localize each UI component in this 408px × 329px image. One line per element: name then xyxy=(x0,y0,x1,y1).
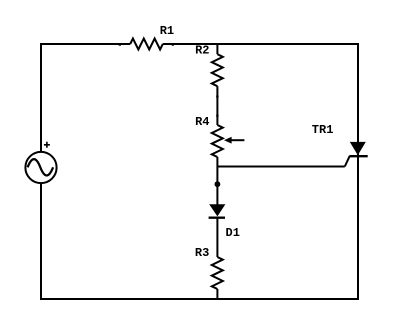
wire from R1 right along top, right side, bottom, up to source - xyxy=(41,44,358,299)
resistor R2 xyxy=(212,54,223,86)
thyristor TR1 triangle xyxy=(350,142,366,155)
svg-text:R1: R1 xyxy=(160,24,174,38)
svg-text:TR1: TR1 xyxy=(312,123,334,137)
node junction dot xyxy=(215,181,221,187)
wire D1 to R3 xyxy=(216,218,218,257)
ac source V1 circle xyxy=(25,152,56,183)
ac source plus polarity mark xyxy=(44,142,50,148)
wire top junction to R2 xyxy=(216,44,218,54)
svg-text:R3: R3 xyxy=(195,246,209,260)
potentiometer R4 xyxy=(212,125,223,157)
svg-text:R2: R2 xyxy=(195,43,209,57)
R4 wiper arrowhead xyxy=(224,137,232,144)
diode D1 triangle xyxy=(209,204,225,216)
svg-text:D1: D1 xyxy=(226,226,240,240)
R4 wiper arrow shaft xyxy=(231,139,245,141)
thyristor TR1 cathode bar xyxy=(349,155,367,157)
pin junction nub left of R1 xyxy=(119,44,121,46)
resistor R1 xyxy=(130,39,163,50)
wire R2 to R4 xyxy=(216,86,218,125)
pin junction nub above R4 xyxy=(216,115,218,117)
pin junction nub below R2 xyxy=(216,95,218,97)
wire gate line horizontal xyxy=(217,166,344,168)
wire from R1 left through top-left corner down to source + xyxy=(41,44,130,152)
ac source sine wave xyxy=(28,159,53,175)
wire R3 to bottom xyxy=(216,289,218,299)
svg-text:R4: R4 xyxy=(195,115,209,129)
wire gate diagonal to TR1 xyxy=(345,156,350,166)
resistor R3 xyxy=(212,257,223,289)
wire R4 to diode D1 (through gate tap and node) xyxy=(216,157,218,205)
pin junction nub right of R1 xyxy=(172,44,174,46)
diode D1 cathode bar xyxy=(209,216,225,218)
